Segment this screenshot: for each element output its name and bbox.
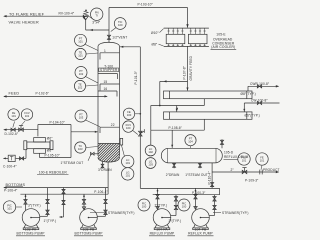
svg-text:P-107-8″: P-107-8″ — [183, 65, 187, 79]
svg-text:STRAINER(TYP.): STRAINER(TYP.) — [222, 211, 249, 215]
label 104-PB REFLUX PUMP — [188, 228, 214, 236]
instrument LG-103 — [145, 158, 156, 169]
svg-text:Ø6″(TYP.): Ø6″(TYP.) — [245, 114, 260, 118]
svg-text:102: 102 — [78, 85, 83, 89]
svg-text:3″(TYP.): 3″(TYP.) — [28, 203, 41, 207]
wire product line P-109-3" — [212, 171, 278, 173]
label 105-E OVERHEAD CONDENSER (AIR COOLER) — [211, 32, 237, 49]
svg-text:Ø8″(TYP.): Ø8″(TYP.) — [241, 92, 256, 96]
svg-text:P-101-3″: P-101-3″ — [134, 70, 138, 84]
pump 104-PA — [153, 209, 171, 230]
vessel reflux drum 105-D — [161, 148, 222, 163]
instrument TC-103 — [75, 142, 86, 153]
wire 103-PA suction — [24, 194, 27, 210]
svg-text:P-105-10″: P-105-10″ — [45, 154, 61, 158]
svg-text:2″DRAIN: 2″DRAIN — [166, 173, 180, 177]
label 105-D REFLUX DRUM — [224, 151, 249, 160]
svg-text:STRAINER(TYP.): STRAINER(TYP.) — [108, 211, 135, 215]
wire condenser1 outlet to condenser2 — [203, 99, 205, 106]
svg-text:102: 102 — [79, 72, 84, 76]
svg-text:BOTTOMS PUMP: BOTTOMS PUMP — [16, 232, 45, 236]
control valve on product — [242, 168, 247, 174]
svg-text:103: 103 — [78, 147, 83, 151]
svg-text:TI: TI — [96, 14, 99, 18]
svg-text:101: 101 — [125, 173, 130, 177]
instrument PSV-1 — [91, 8, 103, 20]
svg-text:100: 100 — [142, 204, 147, 208]
svg-text:RV-100-4″: RV-100-4″ — [59, 11, 75, 15]
svg-text:VALVE HEADER: VALVE HEADER — [9, 20, 39, 24]
instrument FCV-101b — [238, 153, 250, 165]
svg-text:Ø6″: Ø6″ — [47, 149, 53, 153]
steam trap — [8, 155, 15, 161]
valve steam out nozzle 1"STEAM OUT — [88, 152, 98, 160]
wire 104-PA discharge — [171, 195, 178, 216]
wire PSV inlet line y=30 — [86, 29, 109, 31]
instrument PIC-101 — [3, 201, 15, 213]
valve header connector — [59, 187, 65, 218]
wire reboiler vapor return P-105-10" — [39, 153, 41, 157]
node level bridle — [120, 138, 125, 156]
wire 103-PB suction — [82, 194, 85, 210]
svg-text:3″x4″: 3″x4″ — [92, 21, 101, 25]
svg-text:CW-100-8″: CW-100-8″ — [251, 99, 268, 103]
control valve FCV-100 on riser — [139, 129, 145, 136]
instrument PT-102 — [75, 67, 87, 79]
svg-text:GRAVITY FEED: GRAVITY FEED — [189, 55, 193, 80]
instrument FE-101 — [8, 109, 19, 120]
svg-text:101: 101 — [260, 158, 265, 162]
label 103-PB BOTTOMS PUMP — [74, 228, 103, 236]
vessel column T-100 stripper shell — [98, 42, 120, 162]
column tray 1 — [100, 52, 120, 54]
svg-text:P-109-3″: P-109-3″ — [245, 179, 259, 183]
wire CW-100-8" supply — [244, 102, 279, 104]
svg-text:Ø6″: Ø6″ — [47, 137, 53, 141]
heat exchanger 105-E air cooler — [164, 28, 209, 46]
svg-text:PRODUCT: PRODUCT — [263, 168, 280, 172]
wire 103-PB discharge — [97, 188, 107, 217]
instrument PIC-100 — [178, 199, 190, 211]
svg-text:1″STEAM OUT: 1″STEAM OUT — [61, 161, 84, 165]
wire 104-PA suction — [156, 188, 159, 209]
instrument TE-101 — [75, 48, 86, 59]
wire air cooler outlet drop — [187, 46, 189, 90]
label 104-PA REFLUX PUMP — [149, 228, 175, 236]
svg-text:P-102-6″: P-102-6″ — [36, 92, 50, 96]
svg-text:1″(TYP.): 1″(TYP.) — [44, 219, 57, 223]
svg-text:102: 102 — [148, 150, 153, 154]
svg-text:101: 101 — [25, 114, 30, 118]
wire drum drain stubs — [173, 163, 176, 168]
svg-text:104: 104 — [188, 140, 193, 144]
svg-text:(AIR COOLER): (AIR COOLER) — [211, 45, 235, 49]
svg-text:Ø8″: Ø8″ — [152, 42, 158, 46]
valve 1/2" vent — [107, 35, 110, 39]
svg-text:C-100-4″: C-100-4″ — [3, 164, 17, 168]
svg-text:100: 100 — [182, 204, 187, 208]
valve 3" drain — [101, 162, 104, 168]
column tray 15 — [100, 83, 120, 85]
wire reflux riser — [139, 47, 141, 189]
wire reflux suction header P-100-3" — [140, 187, 219, 189]
instrument LC-102 — [145, 145, 156, 156]
svg-text:100: 100 — [118, 23, 123, 27]
wire level standpipe from jumper — [150, 106, 152, 131]
instrument LC-101 — [122, 155, 134, 167]
column bottom liquid hatch — [79, 143, 139, 164]
instrument PT-101 — [75, 34, 87, 46]
svg-text:P-103-10″: P-103-10″ — [138, 3, 154, 7]
svg-text:22: 22 — [111, 123, 115, 127]
instrument PT-104 — [185, 135, 196, 146]
valve on CW — [257, 101, 261, 104]
pump 103-PB — [80, 209, 98, 230]
wire riser to P-104-10" — [37, 125, 39, 137]
svg-text:101: 101 — [11, 114, 16, 118]
svg-text:1/2″VENT: 1/2″VENT — [112, 36, 127, 40]
instrument FIC-100 — [138, 199, 150, 211]
svg-text:Ø10″: Ø10″ — [151, 31, 159, 35]
wire overhead top run P-103-10" — [109, 7, 188, 9]
svg-text:3″(TYP.): 3″(TYP.) — [169, 219, 182, 223]
heat exchanger trim condenser 1 — [164, 91, 253, 99]
instrument FCV-100 — [123, 121, 134, 132]
column tray 16 — [98, 90, 117, 92]
wire drum outlet P-110-4" — [211, 163, 213, 189]
svg-text:3″DRAIN: 3″DRAIN — [98, 168, 112, 172]
svg-text:100: 100 — [126, 126, 131, 130]
valve gate on steam line — [11, 128, 15, 131]
wire bottoms outlet — [107, 162, 109, 194]
svg-text:P-106-4″: P-106-4″ — [4, 189, 18, 193]
svg-text:P-106-4″: P-106-4″ — [94, 190, 108, 194]
instrument PT-103 — [75, 110, 87, 122]
svg-text:101: 101 — [78, 40, 83, 44]
wire steam line D-102-6" — [4, 129, 38, 131]
svg-text:101: 101 — [78, 53, 83, 57]
orifice FE on product — [260, 165, 262, 174]
svg-text:TO FLARE RELIEF: TO FLARE RELIEF — [9, 12, 45, 16]
valve drum vent — [220, 139, 223, 148]
svg-text:16: 16 — [104, 87, 108, 91]
svg-text:CWR-100-8″: CWR-100-8″ — [250, 82, 270, 86]
wire 103-PA discharge — [40, 188, 49, 217]
pump 103-PA — [22, 209, 40, 230]
control valve FCV-101 — [19, 125, 24, 131]
wire drum inlet — [171, 130, 173, 148]
column tray 22 — [100, 126, 120, 128]
wire flare header line — [4, 15, 86, 17]
svg-text:FEED: FEED — [9, 92, 20, 96]
svg-text:BOTTOMS PUMP: BOTTOMS PUMP — [74, 232, 103, 236]
instrument TIC-100 — [114, 18, 126, 30]
svg-text:105-D: 105-D — [224, 151, 234, 155]
heat exchanger trim condenser 2 — [164, 112, 253, 119]
svg-text:105-E: 105-E — [216, 32, 226, 36]
svg-text:15: 15 — [104, 80, 108, 84]
svg-text:103: 103 — [79, 115, 84, 119]
wire steam to column — [70, 125, 72, 132]
relief valve RV-100 (spring) — [83, 10, 88, 30]
svg-text:101: 101 — [125, 161, 130, 165]
svg-text:P-104-10″: P-104-10″ — [50, 120, 66, 124]
svg-text:101: 101 — [242, 158, 247, 162]
label L STRAINER(TYP.) — [90, 212, 107, 214]
instrument FCV-101 — [21, 109, 32, 120]
label STRAINER(TYP.) — [213, 212, 221, 214]
instrument FE-100 — [123, 108, 134, 119]
svg-text:1: 1 — [104, 49, 106, 53]
wire 104-PB discharge — [209, 195, 216, 216]
wire condensate out + steam trap C-100-4" — [25, 150, 27, 159]
wire condenser2 outlet P-108-6" — [203, 119, 205, 130]
pump 104-PB — [192, 209, 210, 230]
svg-text:101: 101 — [7, 206, 12, 210]
column tray (mid) — [98, 73, 118, 75]
wire CWR-100-8" return — [247, 86, 249, 91]
svg-text:103: 103 — [148, 162, 153, 166]
svg-text:REFLUX PUMP: REFLUX PUMP — [188, 232, 213, 236]
wire FEED P-102-6" — [4, 95, 107, 97]
valve on CWR — [257, 85, 261, 88]
svg-text:100-E REBOILER: 100-E REBOILER — [39, 170, 68, 174]
label 100-E REBOILER — [37, 170, 69, 174]
instrument LG-101 — [122, 168, 134, 180]
svg-text:P-108-6″: P-108-6″ — [169, 126, 183, 130]
wire overhead riser x=109 — [108, 8, 110, 43]
wire reflux discharge subheader — [153, 194, 220, 196]
svg-text:P-110-4″: P-110-4″ — [208, 171, 212, 185]
svg-text:D-102-6″: D-102-6″ — [5, 132, 19, 136]
wire bottoms suction header — [20, 193, 108, 195]
heat exchanger 100-E reboiler — [24, 138, 53, 154]
svg-text:1″STEAM OUT: 1″STEAM OUT — [185, 173, 208, 177]
instrument TE-102 — [74, 80, 85, 91]
label 103-PA BOTTOMS PUMP — [16, 228, 45, 236]
svg-text:100: 100 — [127, 113, 132, 117]
wire 104-PB suction — [194, 188, 197, 209]
wire bottoms discharge header — [4, 187, 108, 189]
instrument FE-101b — [256, 153, 268, 165]
svg-text:REFLUX PUMP: REFLUX PUMP — [150, 232, 175, 236]
wire run to condensers — [160, 80, 188, 82]
svg-text:2″(TYP.): 2″(TYP.) — [155, 203, 168, 207]
